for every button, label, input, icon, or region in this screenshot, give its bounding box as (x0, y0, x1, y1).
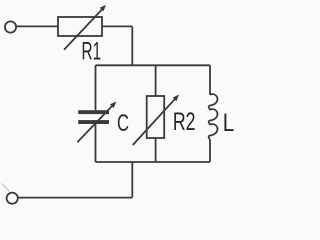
wire R1 to node (102, 25, 132, 27)
svg-text:C: C (117, 110, 129, 137)
wire right branch lower segment (209, 140, 211, 163)
scan artifact streak (2, 184, 10, 192)
wire lower rail to terminal (18, 197, 132, 199)
svg-text:L: L (223, 110, 235, 137)
wire R2 branch upper segment (155, 65, 157, 96)
inductor L (209, 94, 218, 139)
wire tank top edge (96, 64, 211, 66)
wire R2 branch lower segment (155, 138, 157, 162)
wire terminal to R1 (16, 25, 58, 27)
terminal bottom-left (7, 193, 18, 204)
svg-text:R1: R1 (82, 38, 102, 66)
svg-text:R2: R2 (173, 109, 196, 136)
wire left branch upper segment (95, 65, 97, 110)
wire node down to tank top (131, 26, 133, 65)
terminal top-left (5, 21, 16, 32)
wire left branch lower segment (95, 124, 97, 162)
wire right branch upper segment (209, 65, 211, 95)
capacitor C (variable) (77, 102, 116, 143)
wire tank bottom edge (96, 161, 211, 163)
resistor R2 (variable) (133, 95, 179, 146)
wire tank bottom to lower rail (131, 162, 133, 198)
resistor R1 (58, 5, 106, 50)
